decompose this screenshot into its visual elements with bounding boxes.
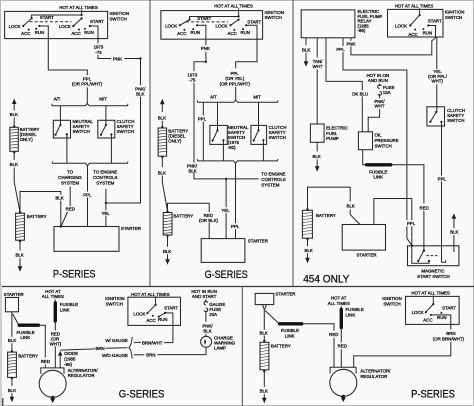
- svg-text:SWITCH: SWITCH: [383, 301, 400, 306]
- contact RUN P3: [422, 28, 424, 30]
- svg-text:(OR PPL/WHT): (OR PPL/WHT): [72, 82, 103, 87]
- svg-text:-80): -80): [228, 145, 236, 150]
- svg-text:FUSIBLE: FUSIBLE: [346, 307, 364, 312]
- node diesel battery bottom P2: [161, 156, 163, 158]
- electric fuel pump box P3: [310, 124, 324, 142]
- svg-text:SYSTEM: SYSTEM: [96, 181, 114, 186]
- label BLK battery-starter P3: [345, 203, 357, 209]
- svg-text:DK BLU: DK BLU: [352, 91, 368, 96]
- ignition switch 2 lever P1: [81, 17, 83, 19]
- wire starter PPL to magnetic switch P3: [374, 199, 412, 254]
- bracket collector bottom P1: [52, 162, 128, 166]
- dashed line inside magnetic switch P3: [427, 255, 438, 257]
- wire BRN to alternator P5: [354, 342, 451, 367]
- svg-text:START: START: [442, 305, 456, 310]
- svg-text:WHT): WHT): [431, 79, 443, 84]
- svg-text:ELECTRIC: ELECTRIC: [326, 126, 348, 131]
- svg-text:BLK: BLK: [163, 249, 171, 254]
- wire BLK diagonal into starter P3: [350, 210, 360, 225]
- svg-text:HOT AT ALL TIMES: HOT AT ALL TIMES: [395, 3, 434, 8]
- contact feed sw1 P2: [196, 24, 198, 26]
- svg-text:HOT AT: HOT AT: [331, 296, 347, 301]
- wire hot feed drop P4: [155, 296, 157, 304]
- svg-text:PNK: PNK: [201, 46, 210, 51]
- battery coil P4: [8, 352, 17, 377]
- svg-text:BLK: BLK: [158, 170, 166, 175]
- divider line between P-SERIES and G-SERIES top panels: [149, 0, 151, 287]
- svg-text:HOT AT ALL TIMES: HOT AT ALL TIMES: [59, 5, 98, 10]
- label RED link P4: [39, 358, 51, 364]
- wire link to RED P4: [39, 325, 45, 357]
- svg-text:BLK: BLK: [302, 47, 310, 52]
- node main battery top P2: [166, 211, 168, 213]
- svg-text:BLK: BLK: [304, 248, 312, 253]
- svg-text:BATTERY: BATTERY: [173, 214, 193, 219]
- svg-text:START: START: [197, 16, 211, 21]
- wire fuse to PNK/BLK P4: [205, 311, 207, 322]
- CSS lever P3: [435, 111, 437, 113]
- svg-text:RED: RED: [66, 207, 75, 212]
- label RED P1: [65, 206, 77, 212]
- svg-text:PUMP: PUMP: [326, 136, 339, 141]
- wire PPL collector to starter P2: [235, 163, 237, 238]
- svg-text:BLK: BLK: [260, 389, 268, 394]
- svg-text:-86): -86): [358, 28, 366, 33]
- svg-text:RED: RED: [329, 332, 338, 337]
- pocket PPL inside magnetic switch P3: [412, 254, 429, 264]
- svg-text:BATTERY: BATTERY: [316, 213, 336, 218]
- svg-text:START: START: [428, 19, 442, 24]
- ignition switch box P2: [161, 11, 263, 40]
- svg-text:REGULATOR: REGULATOR: [68, 373, 95, 378]
- ignition lever P5: [432, 303, 434, 305]
- svg-text:BRN: BRN: [95, 346, 104, 351]
- node YEL junction P1: [105, 202, 107, 204]
- svg-text:M/T: M/T: [99, 97, 107, 102]
- svg-text:ACC: ACC: [408, 32, 417, 37]
- contact feed sw1 P1: [38, 25, 40, 27]
- svg-text:STARTER: STARTER: [356, 253, 376, 258]
- contact ACC sw2 P2: [233, 29, 235, 31]
- label PPL CSS P3: [436, 176, 448, 182]
- brace gauge split P4: [129, 337, 133, 359]
- label BRN P4: [95, 345, 106, 351]
- ground magnetic switch P3: [452, 213, 457, 219]
- node battery bottom P3: [306, 238, 308, 240]
- svg-text:LOCK: LOCK: [216, 24, 228, 29]
- svg-text:CONTROLS: CONTROLS: [261, 177, 285, 182]
- wire starter diagonal to fusible link P4: [13, 314, 19, 325]
- svg-text:LINK: LINK: [346, 313, 356, 318]
- wire YEL to starter P2: [225, 179, 227, 239]
- svg-text:BLK: BLK: [10, 162, 18, 167]
- svg-text:(OR PPL/WHT): (OR PPL/WHT): [220, 81, 251, 86]
- scan artifact bottom-left corner: [0, 398, 4, 406]
- wire fusible link to RED P3: [392, 165, 424, 204]
- ignition switch lever P3: [419, 14, 421, 16]
- ignition switch 1 lever P2: [188, 19, 190, 21]
- wire PPL to starter P1: [87, 166, 89, 227]
- wire BRN to brace P4: [106, 347, 128, 350]
- wire sw1 feed to PNK P2: [197, 25, 206, 45]
- contact feed P3: [427, 24, 429, 26]
- svg-text:ACC: ACC: [146, 318, 155, 323]
- gauge fuse P4: [205, 300, 207, 303]
- svg-text:FUSIBLE: FUSIBLE: [281, 328, 299, 333]
- NSS lever P1: [59, 124, 61, 126]
- label RED link P5: [328, 332, 340, 338]
- contact ACC P3: [414, 29, 416, 31]
- node main battery bottom P1: [19, 240, 21, 242]
- svg-text:BLK: BLK: [203, 328, 211, 333]
- wire diesel battery down P1: [13, 152, 15, 160]
- contact feed sw2 P1: [89, 25, 91, 27]
- wire PNK to junction P1: [125, 58, 141, 60]
- label DK BLU P3: [352, 90, 370, 96]
- wire relay pin DK BLU P3: [326, 38, 362, 132]
- svg-text:CONTROLS: CONTROLS: [93, 175, 117, 180]
- svg-text:START: START: [247, 20, 261, 25]
- svg-text:ALTERNATOR/: ALTERNATOR/: [360, 369, 391, 374]
- node PPL on magnetic switch box P3: [411, 245, 413, 247]
- label RED (OR WHT) P4: [49, 331, 63, 347]
- node main battery top P1: [19, 211, 21, 213]
- svg-text:BLK: BLK: [10, 112, 18, 117]
- svg-text:ALL TIMES: ALL TIMES: [328, 301, 350, 306]
- wire TO ENGINE drop P1: [105, 189, 107, 227]
- wire BLK from battery P1: [20, 192, 61, 227]
- svg-text:BLK: BLK: [8, 388, 16, 393]
- wire link down RED P5: [340, 328, 342, 343]
- alternator plate P4: [41, 368, 64, 374]
- wire sw2 feed to PNK P1: [90, 26, 98, 44]
- label PPL relay P3: [335, 46, 347, 52]
- dashed travel line sw1-sw2 P1: [30, 21, 72, 23]
- wire link to RED OR WHT P4: [54, 322, 56, 331]
- wire hot feed drop P1: [81, 10, 83, 15]
- wire diesel battery down P2: [161, 157, 163, 167]
- node PNK corner P2: [205, 61, 207, 63]
- fuse 15A P3: [379, 84, 381, 86]
- wire relay pin BLK P3: [305, 38, 307, 46]
- svg-text:PPL: PPL: [438, 176, 447, 181]
- svg-text:M/T: M/T: [253, 95, 261, 100]
- wire to diesel battery P1: [13, 118, 15, 127]
- svg-text:PPL: PPL: [407, 221, 416, 226]
- wire RED from charging P1: [61, 187, 70, 227]
- label PPL on starter wire P1: [83, 192, 93, 198]
- svg-text:P-SERIES: P-SERIES: [411, 388, 455, 400]
- wire diesel to main battery P1: [14, 168, 20, 212]
- node battery bottom P5: [263, 370, 265, 372]
- svg-text:ONLY): ONLY): [168, 138, 182, 143]
- node diesel battery top P2: [161, 126, 163, 128]
- svg-text:STARTER: STARTER: [248, 238, 268, 243]
- svg-text:HOT AT ALL TIMES: HOT AT ALL TIMES: [411, 291, 450, 296]
- starter box P4: [5, 298, 18, 312]
- alternator circle P4: [39, 370, 66, 397]
- wire ignition feed PNK to relay P3: [351, 26, 436, 55]
- ground fuel pump P3: [316, 159, 318, 166]
- svg-text:PRESSURE: PRESSURE: [375, 138, 399, 143]
- CSS lever P1: [105, 124, 107, 126]
- svg-text:SYSTEM: SYSTEM: [61, 181, 79, 186]
- ground battery P5: [263, 394, 265, 398]
- wire fuel pump to ground P3: [316, 142, 318, 151]
- ground alternator P4: [51, 396, 54, 399]
- node battery top P5: [263, 340, 265, 342]
- wire PNK/WHT to oil pressure switch P3: [368, 109, 379, 132]
- electric fuel pump relay box P3: [301, 10, 355, 38]
- starter box P5: [255, 293, 274, 304]
- svg-text:CHARGING: CHARGING: [58, 175, 82, 180]
- svg-text:REGULATOR: REGULATOR: [360, 374, 387, 379]
- contact feed sw2 P2: [245, 24, 247, 26]
- wire sw1 feed to PPL P1: [39, 26, 48, 39]
- node battery top P3: [306, 208, 308, 210]
- label TO ENGINE CONTROLS SYSTEM P1: [91, 169, 120, 186]
- ignition switch box P5: [406, 296, 460, 324]
- label BLK starter P4: [6, 337, 17, 343]
- ground alternator P5: [342, 395, 345, 398]
- ignition switch box P4: [128, 297, 181, 325]
- svg-text:LOCK: LOCK: [9, 24, 21, 29]
- node starter BLK RED junction P1: [60, 225, 62, 227]
- wire RED OR WHT into alternator P4: [54, 346, 56, 368]
- svg-text:PPL: PPL: [83, 193, 92, 198]
- svg-text:SWITCH: SWITCH: [447, 118, 464, 123]
- wire CSS output P1: [110, 134, 112, 163]
- wire starter to battery BLK P4: [11, 312, 13, 337]
- svg-text:SWITCH: SWITCH: [265, 15, 282, 20]
- svg-text:ACC: ACC: [21, 31, 30, 36]
- svg-text:BRN/WHT: BRN/WHT: [142, 340, 163, 345]
- svg-text:LOCK: LOCK: [165, 24, 177, 29]
- NSS lever P2: [216, 129, 218, 131]
- wire RED into magnetic switch P3: [423, 211, 425, 251]
- dashed travel line P2: [186, 21, 228, 23]
- svg-text:A/T: A/T: [54, 97, 61, 102]
- svg-text:(OR BRN/WHT): (OR BRN/WHT): [433, 336, 465, 341]
- node battery top P4: [11, 350, 13, 352]
- contact RUN sw1 P2: [192, 28, 194, 30]
- magnetic start switch box P3: [408, 246, 459, 266]
- battery (diesel only) coil P1: [10, 127, 18, 151]
- node diesel battery top P1: [13, 125, 15, 127]
- node battery bottom P4: [11, 377, 13, 379]
- wire relay pin PPL P3: [343, 38, 412, 246]
- wire relay pin TAN/WHT P3: [316, 38, 318, 58]
- svg-text:PNK: PNK: [346, 41, 355, 46]
- svg-text:LOCK: LOCK: [412, 310, 424, 315]
- wire hot feed drop P3: [419, 8, 421, 15]
- wire to diesel battery P2: [161, 121, 163, 128]
- oil pressure switch box P3: [358, 132, 372, 150]
- battery coil P1: [16, 213, 25, 240]
- ignition switch box P1: [5, 11, 108, 38]
- wire BLK to battery P4: [11, 343, 13, 350]
- wire diode to alternator P4: [59, 356, 61, 368]
- ground battery P2: [167, 254, 169, 259]
- ignition switch 2 lever P2: [238, 19, 240, 21]
- svg-text:AND RUN: AND RUN: [368, 78, 388, 83]
- svg-text:BRN: BRN: [146, 353, 155, 358]
- svg-text:WHT): WHT): [50, 342, 62, 347]
- svg-text:A/T: A/T: [210, 95, 217, 100]
- svg-text:RUN: RUN: [84, 30, 94, 35]
- label TO CHARGING SYSTEM P1: [56, 169, 84, 186]
- wire BRN/WHT to ignition P4: [164, 313, 173, 343]
- svg-text:P-SERIES: P-SERIES: [53, 268, 96, 280]
- starter box P1: [54, 227, 119, 252]
- alternator circle P5: [330, 369, 357, 396]
- svg-text:BATTERY: BATTERY: [271, 344, 291, 349]
- svg-text:LINK: LINK: [20, 335, 30, 340]
- neutral safety switch box P1: [53, 120, 70, 138]
- wire PNK/BLK vertical P1: [140, 59, 142, 86]
- svg-text:TO: TO: [67, 170, 74, 175]
- contact RUN sw2 P2: [242, 28, 244, 30]
- bracket A/T M/T top P1: [52, 103, 128, 105]
- wire RED into alternator P5: [333, 338, 335, 368]
- svg-text:BLK: BLK: [260, 330, 268, 335]
- contact RUN sw2 P1: [84, 28, 86, 30]
- clutch safety switch box P2: [251, 125, 267, 144]
- wire PPL from sw1 P1: [48, 39, 87, 76]
- svg-text:TO ENGINE: TO ENGINE: [93, 170, 117, 175]
- svg-text:SWITCH: SWITCH: [445, 15, 462, 20]
- CSS lever P2: [257, 129, 259, 131]
- node main battery bottom P2: [166, 235, 168, 237]
- svg-text:RED: RED: [338, 344, 347, 349]
- svg-text:RUN: RUN: [437, 315, 447, 320]
- svg-text:BRN: BRN: [446, 331, 455, 336]
- svg-text:STARTER: STARTER: [121, 226, 141, 231]
- wire RED into alternator P4: [44, 365, 46, 369]
- label RED vertical link P5: [336, 343, 348, 349]
- wire START bus P2: [190, 17, 239, 20]
- svg-text:RUN: RUN: [423, 31, 433, 36]
- wire A/T drop to NSS P1: [59, 106, 61, 125]
- svg-text:SYSTEM: SYSTEM: [261, 182, 279, 187]
- svg-text:PPL: PPL: [83, 76, 92, 81]
- label YEL P2: [220, 207, 231, 213]
- wire BRN from diode P4: [60, 349, 95, 350]
- pocket CSS inside magnetic switch P3: [442, 258, 446, 262]
- svg-text:SWITCH: SWITCH: [117, 129, 134, 134]
- svg-text:ACC: ACC: [228, 31, 237, 36]
- wire BRN to lamp P4: [157, 347, 206, 354]
- wire M/T drop to CSS P1: [105, 106, 107, 125]
- battery (diesel only) coil P2: [158, 128, 167, 156]
- wire feed to BRN/WHT P4: [165, 312, 173, 314]
- svg-text:G-SERIES: G-SERIES: [119, 388, 165, 400]
- charge warning lamp P4: [201, 336, 212, 347]
- node diesel battery bottom P1: [13, 151, 15, 153]
- svg-text:DIODE: DIODE: [64, 351, 78, 356]
- svg-text:BLK: BLK: [8, 338, 16, 343]
- label PPL bypass P2: [197, 116, 208, 122]
- svg-text:LOCK: LOCK: [59, 24, 71, 29]
- fusible link bar horizontal P5: [280, 322, 302, 325]
- wire fuse to PNK/WHT P3: [379, 94, 381, 98]
- diode symbol P4: [58, 351, 63, 356]
- label PNK/BLK P2: [187, 163, 201, 174]
- svg-text:AND START: AND START: [192, 294, 217, 299]
- svg-text:-75: -75: [95, 50, 102, 55]
- svg-text:ACC: ACC: [71, 31, 80, 36]
- contact ACC sw1 P1: [28, 29, 30, 31]
- wire sw2 feed to PPL P2: [236, 25, 257, 68]
- svg-text:15A: 15A: [383, 90, 391, 95]
- label RED P3: [418, 205, 430, 211]
- alternator plate P5: [330, 367, 356, 373]
- svg-text:RUN: RUN: [191, 30, 201, 35]
- node PNK junction P1: [139, 57, 141, 59]
- svg-text:SWITCH: SWITCH: [375, 143, 392, 148]
- svg-text:LAMP: LAMP: [214, 346, 226, 351]
- fusible link bar vertical P5: [340, 306, 342, 308]
- svg-text:SWITCH: SWITCH: [110, 16, 127, 21]
- starter box P3: [342, 225, 385, 251]
- node YEL junction P2: [225, 178, 227, 180]
- node RED contact P3: [423, 249, 425, 251]
- svg-text:LINK: LINK: [373, 174, 383, 179]
- wire PNK/BLK to lamp P4: [205, 334, 207, 337]
- svg-text:STARTER: STARTER: [4, 292, 24, 297]
- ground diesel top P2: [160, 99, 165, 105]
- contact RUN feed lever P4: [158, 316, 160, 318]
- divider line between bottom G-SERIES and P-SERIES panels: [241, 287, 243, 406]
- wire battery BLK to starter P3: [308, 187, 351, 209]
- wire PNK to corner P2: [205, 52, 207, 62]
- wire TAN/WHT to fuel pump P3: [316, 69, 318, 124]
- wire feed BRN P5: [437, 315, 451, 330]
- wire PNK/BLK to YEL node P1: [107, 97, 141, 203]
- wire 1973-75 to PNK node P1: [98, 55, 111, 59]
- contact ACC sw1 P2: [183, 29, 185, 31]
- label PPL starter P2: [230, 223, 241, 229]
- svg-text:W/O GAUGE: W/O GAUGE: [102, 353, 128, 358]
- contact ACC P5: [430, 314, 432, 316]
- label BLK P1: [54, 195, 66, 201]
- svg-text:RUN: RUN: [158, 317, 168, 322]
- svg-text:W/ GAUGE: W/ GAUGE: [105, 338, 128, 343]
- svg-text:RED: RED: [420, 205, 429, 210]
- wire oil switch to fusible link P3: [363, 150, 366, 165]
- label RED (OR BLK) P2: [199, 212, 219, 223]
- wire battery to ground P4: [11, 378, 13, 386]
- wire battery to ground P3: [307, 239, 309, 246]
- svg-text:G-SERIES: G-SERIES: [205, 269, 248, 281]
- node bus junction P1: [81, 14, 83, 16]
- node bus junction P2: [238, 15, 240, 17]
- fusible link bar vertical P4: [54, 300, 56, 303]
- wire NSS output P1: [66, 134, 68, 163]
- wire RED into alternator middle P5: [340, 349, 342, 367]
- clutch safety switch box P1: [98, 120, 115, 138]
- svg-text:ONLY): ONLY): [20, 137, 34, 142]
- wire PNK/BLK down P2: [193, 83, 195, 163]
- svg-text:START: START: [90, 19, 104, 24]
- svg-text:RUN: RUN: [35, 30, 45, 35]
- wire YEL to CSS P3: [436, 84, 438, 112]
- svg-text:BATTERY: BATTERY: [27, 214, 47, 219]
- svg-text:HOT AT ALL TIMES: HOT AT ALL TIMES: [214, 3, 253, 8]
- wire PNK jog left P2: [194, 62, 206, 71]
- svg-text:ACC: ACC: [177, 31, 186, 36]
- svg-text:BLK: BLK: [450, 230, 458, 235]
